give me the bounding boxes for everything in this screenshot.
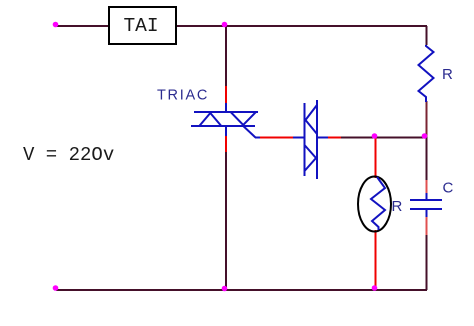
box TAI <box>109 7 176 44</box>
wire capacitor top lead (red) <box>426 180 428 194</box>
triac U1 <box>191 103 260 138</box>
svg-text:V = 22Ov: V = 22Ov <box>23 144 114 166</box>
svg-text:C: C <box>443 180 454 197</box>
node bottom junction <box>222 286 228 292</box>
photoresistor R in ellipse <box>358 177 391 232</box>
wire gate horizontal dark segment <box>341 137 426 139</box>
wire triac cathode lead (red) <box>225 136 227 153</box>
node bottom junction 3 <box>372 285 378 291</box>
wire right vertical bottom (dark) <box>426 235 428 290</box>
wire triac anode lead (red) <box>225 86 227 104</box>
wire bottom horizontal <box>56 289 427 291</box>
wire photoresistor branch lower (red) <box>375 230 377 289</box>
wire right vertical top (dark) <box>426 26 428 45</box>
node gate junction 1 <box>372 133 378 139</box>
wire right vertical below R (maroon lead) <box>426 101 428 137</box>
node top junction <box>222 22 228 28</box>
svg-text:R: R <box>442 66 453 83</box>
resistor R top-right <box>419 45 434 102</box>
wire right vertical mid (dark) <box>426 137 428 181</box>
node top-left terminal <box>53 22 59 28</box>
wire diac right red segment <box>328 137 342 139</box>
svg-text:R: R <box>392 198 403 215</box>
capacitor C <box>410 193 442 217</box>
diac D1 <box>293 100 328 179</box>
wire main vertical upper (dark) <box>225 26 227 87</box>
wire gate horizontal red segment <box>259 137 293 139</box>
wire capacitor bottom lead (red) <box>426 216 428 236</box>
svg-text:TAI: TAI <box>123 15 158 37</box>
wire main vertical lower (dark) <box>225 152 227 290</box>
node gate junction 2 <box>422 133 428 139</box>
wire top horizontal <box>56 25 427 27</box>
svg-text:TRIAC: TRIAC <box>157 88 209 104</box>
node bottom-left terminal <box>53 285 59 291</box>
wire photoresistor branch upper (red) <box>375 138 377 178</box>
